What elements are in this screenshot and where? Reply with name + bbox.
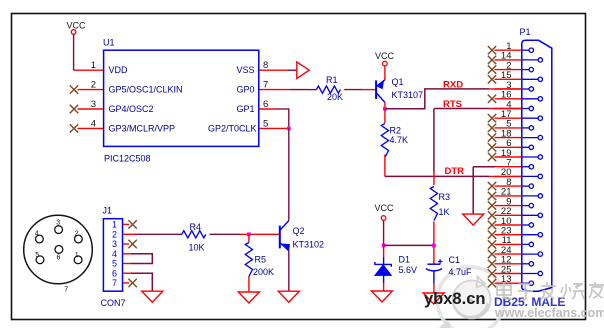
svg-text:R3: R3 <box>439 192 451 202</box>
P1 pin 3 stub <box>495 87 534 91</box>
svg-text:20K: 20K <box>327 92 343 102</box>
J1 pin 1 stub with no-connect X <box>123 220 137 228</box>
wire VCC to D1 node <box>383 220 385 245</box>
wire GP1 to GP2 net corner <box>276 108 289 128</box>
zener diode D1 5.6V <box>375 245 417 290</box>
resistor R5 <box>245 234 274 277</box>
wire RXD net from junction to DB25 pin 3 <box>385 89 521 109</box>
P1 pin 24 stub <box>488 250 543 258</box>
svg-text:5: 5 <box>35 252 39 259</box>
P1 pin 15 stub <box>488 75 543 83</box>
svg-text:1: 1 <box>75 252 79 259</box>
svg-text:4: 4 <box>35 231 39 238</box>
wire loop J1 pin 4 to pin 5 <box>131 254 152 264</box>
J1 pin 2 stub <box>123 233 135 235</box>
connector J1 face view (7-pin DIN) <box>24 215 93 293</box>
junction node C1 / R3 <box>432 244 436 248</box>
wire D1 node to C1 node <box>384 244 434 246</box>
wire Q2 emitter to ground <box>288 251 290 291</box>
svg-text:R2: R2 <box>390 125 402 135</box>
svg-text:Q2: Q2 <box>293 226 305 236</box>
P1 pin 9 stub <box>488 201 534 209</box>
U1 pin 3 stub with no-connect X <box>70 105 103 113</box>
svg-text:5: 5 <box>263 118 268 129</box>
wire DTR net to DB25 pin 20 <box>385 175 521 177</box>
off-page power port at U1 pin 8 <box>297 62 309 79</box>
wire Q1 collector to junction <box>384 102 386 109</box>
P1 pin 25 stub <box>488 269 543 277</box>
P1 pin 5 stub <box>488 124 534 132</box>
svg-text:VSS: VSS <box>236 65 254 75</box>
J1 pin 7 stub with no-connect X <box>123 279 137 287</box>
wire VCC to U1 pin 1 <box>74 34 103 70</box>
wire R4 to Q2 base <box>210 233 279 235</box>
svg-text:GP3/MCLR/VPP: GP3/MCLR/VPP <box>109 123 176 133</box>
svg-text:R4: R4 <box>190 222 202 232</box>
svg-text:2: 2 <box>112 230 117 240</box>
P1 pin 13 stub <box>488 279 534 287</box>
resistor R4 <box>182 222 206 253</box>
svg-text:1: 1 <box>112 220 117 230</box>
svg-text:3: 3 <box>56 219 60 226</box>
P1 pin 6 stub <box>488 143 534 151</box>
svg-text:VDD: VDD <box>109 65 129 75</box>
P1 pin 1 stub <box>488 46 534 54</box>
P1 pin 18 stub <box>488 133 543 141</box>
wire J1 pin 6 to ground <box>131 273 152 291</box>
svg-text:KT3107: KT3107 <box>392 90 424 100</box>
wire VCC to Q1 emitter <box>384 66 386 80</box>
svg-text:10K: 10K <box>189 243 205 253</box>
svg-text:VCC: VCC <box>375 203 395 213</box>
P1 pin 7 stub <box>495 165 534 169</box>
connector P1 DB25 body <box>520 27 552 291</box>
svg-text:R1: R1 <box>326 75 338 85</box>
svg-text:GP5/OSC1/CLKIN: GP5/OSC1/CLKIN <box>109 85 183 95</box>
power VCC symbol (D1 / C1 supply rail) <box>375 203 395 220</box>
wire DB25 pin 7 to ground <box>473 167 494 214</box>
wire R5 to ground <box>248 276 250 291</box>
junction node GP2 net <box>287 127 291 131</box>
power VCC symbol (Q1 emitter) <box>375 51 395 66</box>
svg-text:D1: D1 <box>399 255 411 265</box>
svg-text:GP0: GP0 <box>236 85 254 95</box>
watermark chinese characters <box>497 282 604 300</box>
svg-text:VCC: VCC <box>67 21 87 31</box>
resistor R1 <box>316 75 343 102</box>
junction node D1 / VCC <box>382 244 386 248</box>
svg-text:5.6V: 5.6V <box>399 265 418 275</box>
ground below D1 <box>372 291 393 302</box>
svg-text:3: 3 <box>91 99 96 110</box>
P1 pin 8 stub <box>488 182 534 190</box>
svg-text:VCC: VCC <box>375 51 395 61</box>
wire GP1/GP2 net down to Q2 collector <box>288 128 290 220</box>
svg-text:13: 13 <box>501 274 512 285</box>
watermark magnifier stamp <box>437 267 504 328</box>
svg-text:J1: J1 <box>103 205 113 215</box>
svg-text:4: 4 <box>91 118 96 129</box>
P1 pin 23 stub <box>488 231 543 239</box>
P1 pin 22 stub <box>488 211 543 219</box>
ground below R5 <box>238 292 259 303</box>
ground below J1 pin 6 <box>142 291 163 302</box>
svg-text:7: 7 <box>64 287 68 294</box>
U1 pin 5 stub (GP2/T0CLK) <box>259 127 288 129</box>
P1 pin 14 stub <box>488 56 543 64</box>
svg-text:7: 7 <box>263 80 268 91</box>
IC U1 PIC12C508 <box>103 38 259 164</box>
wire R1 to Q1 base <box>344 89 375 91</box>
svg-text:Q1: Q1 <box>392 77 404 87</box>
svg-text:DTR: DTR <box>445 166 465 177</box>
P1 pin 17 stub <box>488 114 543 122</box>
capacitor C1 4.7uF <box>426 245 472 292</box>
U1 pin 8 stub (VSS) <box>259 69 296 71</box>
power VCC symbol (U1 VDD supply) <box>67 21 87 35</box>
transistor Q1 KT3107 PNP <box>376 77 423 102</box>
wire RTS net from DB25 pin 4 to R3 <box>434 109 521 186</box>
U1 pin 7 stub (GP0) <box>259 89 308 91</box>
wire GP0 to R1 <box>309 89 317 91</box>
svg-text:6: 6 <box>263 99 268 110</box>
svg-text:RTS: RTS <box>443 99 462 110</box>
svg-text:6: 6 <box>57 254 61 261</box>
J1 pin 5 stub <box>123 263 131 265</box>
svg-text:ybx8.cn: ybx8.cn <box>424 290 485 308</box>
svg-text:RXD: RXD <box>443 79 463 90</box>
P1 pin 20 stub <box>495 174 543 178</box>
J1 pin 3 stub with no-connect X <box>123 240 137 248</box>
P1 pin 12 stub <box>488 260 534 268</box>
resistor R2 <box>381 109 408 158</box>
wire R3 to C1 junction <box>433 222 435 246</box>
svg-text:1: 1 <box>91 60 96 71</box>
P1 pin 21 stub <box>488 192 543 200</box>
svg-text:C1: C1 <box>449 255 461 265</box>
svg-text:200K: 200K <box>253 267 274 277</box>
connector J1 CON7 box <box>101 205 126 307</box>
P1 pin 4 stub <box>495 106 534 110</box>
svg-text:2: 2 <box>75 231 79 238</box>
svg-text:4.7uF: 4.7uF <box>449 267 473 277</box>
svg-text:KT3102: KT3102 <box>293 240 325 250</box>
svg-text:www.elecfans.com: www.elecfans.com <box>494 306 604 320</box>
P1 pin 11 stub <box>488 240 534 248</box>
U1 pin 6 stub (GP1) <box>259 108 276 110</box>
J1 pin 4 stub <box>123 253 131 255</box>
ground below C1 <box>423 293 444 304</box>
P1 pin 16 stub <box>488 95 543 103</box>
svg-text:8: 8 <box>263 60 268 71</box>
P1 pin 19 stub <box>488 153 543 161</box>
svg-text:GP1: GP1 <box>236 104 254 114</box>
svg-text:GP4/OSC2: GP4/OSC2 <box>109 104 154 114</box>
svg-text:PIC12C508: PIC12C508 <box>104 154 151 164</box>
U1 pin 4 stub with no-connect X <box>70 124 103 132</box>
svg-text:5: 5 <box>112 259 117 269</box>
ground below DB25 pin 7 <box>463 214 484 225</box>
wire J1 pin 2 to R4 <box>135 233 182 235</box>
svg-text:R5: R5 <box>255 255 267 265</box>
junction node Q1 collector / R2 / RXD <box>383 107 387 111</box>
svg-text:P1: P1 <box>520 27 531 37</box>
svg-text:GP2/T0CLK: GP2/T0CLK <box>208 123 257 133</box>
transistor Q2 KT3102 NPN <box>280 221 324 251</box>
svg-text:4: 4 <box>112 249 117 259</box>
svg-text:1K: 1K <box>439 207 450 217</box>
P1 pin 2 stub <box>488 65 534 73</box>
U1 pin 2 stub with no-connect X <box>70 85 103 93</box>
ground below Q2 <box>278 291 299 302</box>
svg-text:3: 3 <box>112 239 117 249</box>
P1 pin 10 stub <box>488 221 534 229</box>
wire R2 to DTR net <box>384 155 386 177</box>
junction node R5 tap <box>247 232 251 236</box>
svg-text:7: 7 <box>112 278 117 288</box>
svg-text:6: 6 <box>112 268 117 278</box>
svg-text:4.7K: 4.7K <box>390 135 409 145</box>
J1 pin 6 stub <box>123 272 131 274</box>
svg-text:2: 2 <box>91 80 96 91</box>
svg-text:U1: U1 <box>103 38 115 48</box>
svg-text:CON7: CON7 <box>101 298 126 308</box>
resistor R3 <box>430 187 450 221</box>
